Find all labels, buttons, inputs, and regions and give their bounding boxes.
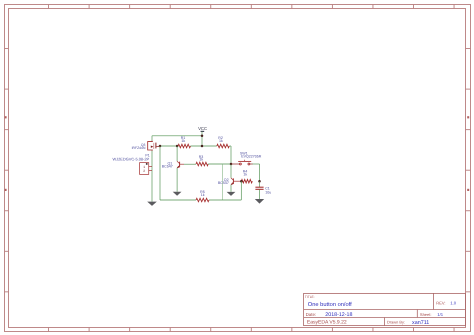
wire main rail gate node to R1 [160,145,178,147]
svg-text:IRFZ44N: IRFZ44N [132,146,146,150]
wire top rail (Q3 drain to VCC) [152,135,202,137]
ground for Q1 [173,192,182,196]
junction switch node [230,163,233,166]
connector P1 2EDGVC-5.08-2P [140,163,149,175]
junction VCC / top rail [201,135,204,138]
wire switch right down to R4 node [253,163,260,165]
resistor R5 [196,198,209,202]
svg-text:REV:: REV: [436,301,445,305]
svg-text:2: 2 [143,169,145,173]
svg-text:1k: 1k [181,139,185,143]
svg-text:One button on/off: One button on/off [308,301,352,308]
wire row3 drop to bottom rail [221,164,223,200]
svg-text:10u: 10u [265,191,271,195]
ground for C1 [255,199,264,204]
resistor R2 [217,144,230,148]
svg-text:Date:: Date: [306,312,317,317]
svg-text:TITLE:: TITLE: [305,295,315,299]
wire Q1 collector [176,146,178,161]
switch SW1 EVQ22705R [231,163,240,165]
ground for Q2 [227,192,236,196]
svg-text:1k: 1k [199,157,203,161]
svg-text:1.0: 1.0 [450,301,456,306]
svg-text:Drawn By:: Drawn By: [387,320,405,324]
svg-text:1k: 1k [243,173,247,177]
wire Q2 collector [230,164,232,178]
transistor Q1 BC547 [179,162,181,168]
wire R2 drop to switch row [229,145,231,147]
resistor R1 [178,144,191,148]
junction VCC on rail [201,145,204,148]
junction gate node [159,145,162,148]
wire R4 riser to bottom rail [240,181,242,200]
title block (decorative) [304,293,466,325]
wire Q1 emitter to ground [176,168,178,192]
svg-text:VCC: VCC [198,126,207,131]
svg-text:BC547: BC547 [162,165,173,169]
wire bottom rail [160,199,196,201]
svg-text:1/1: 1/1 [437,312,443,317]
svg-text:EasyEDA V5.9.22: EasyEDA V5.9.22 [307,319,347,325]
svg-text:2018-12-18: 2018-12-18 [325,311,352,317]
resistor R4 [241,179,252,183]
junction R4 right / C1 [258,180,261,183]
svg-text:1: 1 [143,165,145,169]
transistor Q3 IRFZ44N [148,142,153,150]
transistor Q2 BC547 [232,178,234,184]
svg-text:C1: C1 [265,186,270,190]
junction R4 left [240,180,243,183]
wire Q3 source down to ground [151,151,153,202]
junction Q1 collector on rail [176,145,179,148]
svg-text:WJ2EDGVC-5.08-2P: WJ2EDGVC-5.08-2P [112,157,149,161]
svg-text:Sheet:: Sheet: [420,313,432,317]
svg-text:1k: 1k [201,193,205,197]
svg-text:BC547: BC547 [218,181,229,185]
capacitor C1 [259,181,261,187]
svg-text:xan711: xan711 [412,319,429,325]
wire Q2 emitter to ground [230,185,232,192]
svg-text:1k: 1k [219,139,223,143]
wire main rail R1 to R2 [191,145,217,147]
resistor R3 [196,162,208,166]
ground for Q3 source / P1 [147,202,157,206]
svg-text:EVQ22705R: EVQ22705R [241,154,261,158]
wire gate node down to bottom rail [159,146,161,200]
wire R3 to switch node [208,163,231,165]
